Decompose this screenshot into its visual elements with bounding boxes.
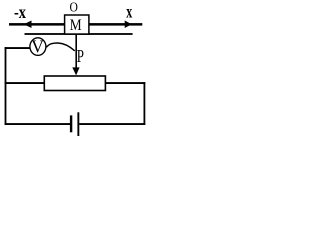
svg-text:V: V	[31, 37, 44, 57]
svg-text:M: M	[70, 17, 82, 34]
svg-text:P: P	[77, 46, 84, 66]
svg-text:-x: -x	[14, 2, 26, 22]
svg-text:x: x	[126, 2, 132, 22]
svg-text:O: O	[70, 1, 78, 16]
